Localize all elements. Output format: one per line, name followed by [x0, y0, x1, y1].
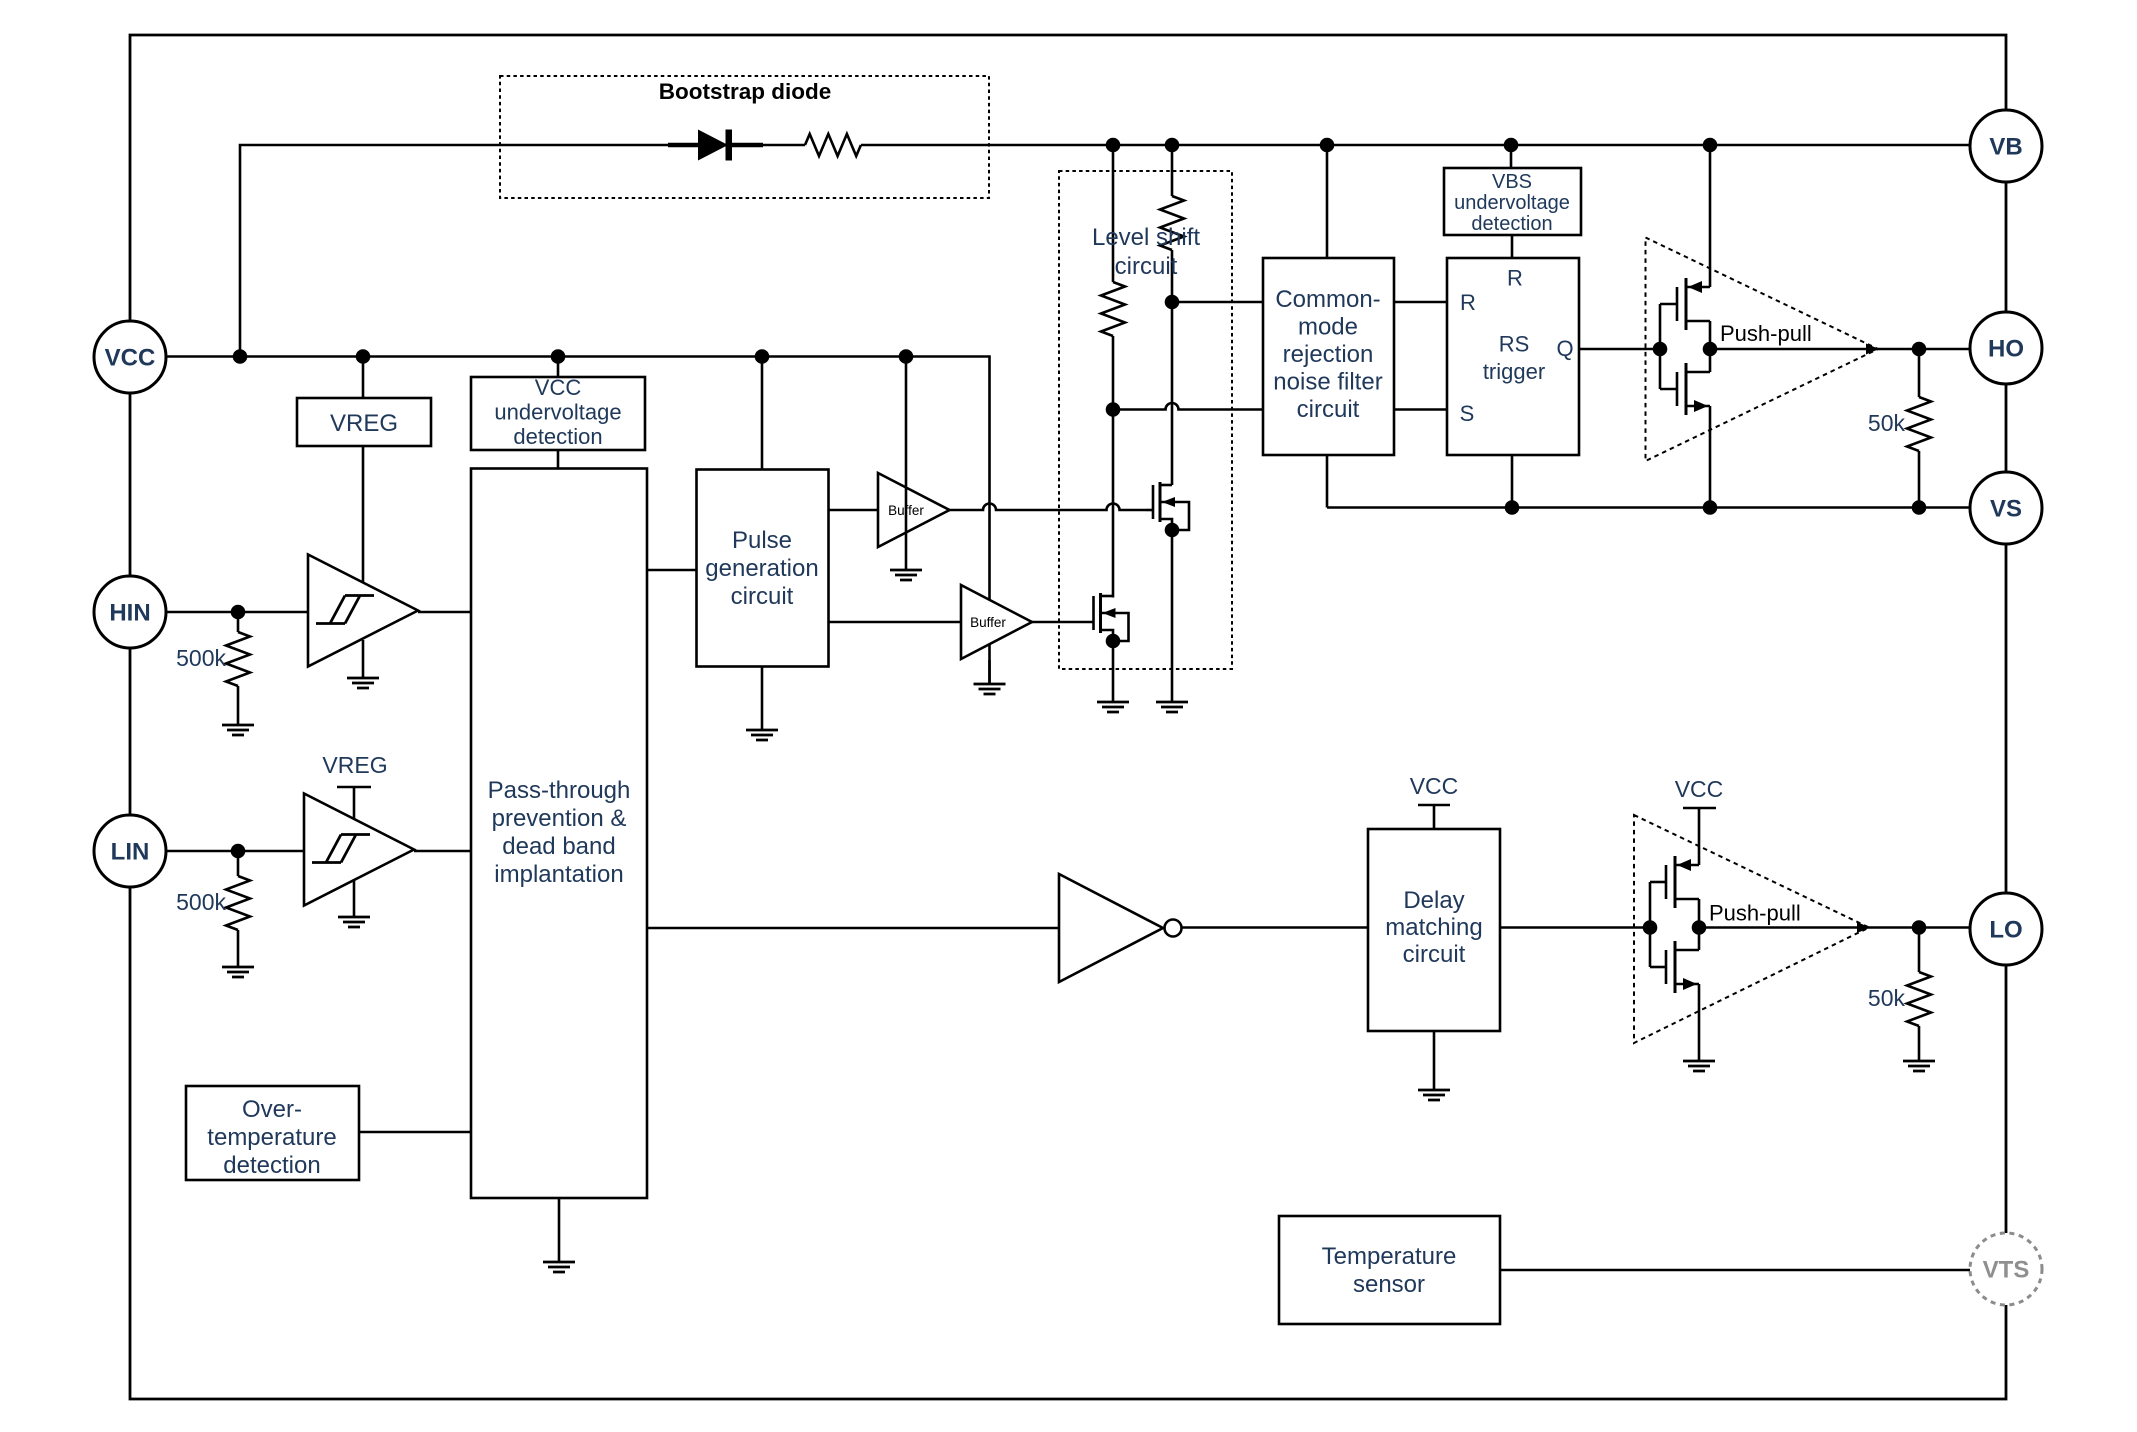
wire VCC to pulse generation — [761, 357, 764, 470]
svg-text:Pass-through: Pass-through — [488, 777, 631, 804]
wire LO NMOS source to ground — [1698, 984, 1701, 1061]
ground 50k LO — [1903, 1061, 1935, 1071]
wire buffer1 power/ground — [905, 357, 908, 571]
block Delay matching circuit — [1368, 829, 1500, 1031]
ground Q2 — [1097, 702, 1129, 712]
pin VCC — [94, 321, 166, 393]
wire VCC bar to delay box — [1433, 805, 1436, 829]
ground delay matching — [1418, 1090, 1450, 1100]
wire delay to LO push-pull — [1500, 926, 1650, 929]
wire Q1 gate from buffer1 — [1146, 509, 1153, 512]
svg-text:Temperature: Temperature — [1322, 1243, 1457, 1270]
svg-text:VTS: VTS — [1983, 1257, 2030, 1284]
node LIN junction — [231, 844, 246, 859]
resistor 500k LIN — [237, 851, 240, 876]
svg-text:undervoltage: undervoltage — [1454, 192, 1570, 214]
node HIN junction — [231, 605, 246, 620]
wire Q output — [1579, 348, 1660, 351]
svg-text:Buffer: Buffer — [970, 615, 1006, 630]
wire HIN input — [166, 611, 308, 614]
wire Q2 source to ground — [1112, 641, 1115, 702]
svg-text:Push-pull: Push-pull — [1709, 901, 1801, 926]
wire HO gate bus — [1659, 304, 1662, 389]
buffer U1 — [878, 473, 950, 547]
wire R line — [1172, 301, 1263, 304]
svg-text:circuit: circuit — [731, 583, 794, 610]
resistor level shift right — [1160, 196, 1184, 250]
pin VS — [1970, 472, 2042, 544]
svg-text:Level shift: Level shift — [1092, 224, 1200, 251]
wire pulse gen to buffer1 — [829, 509, 879, 512]
node VS rail junctions — [1505, 500, 1520, 515]
ground schmitt HIN — [347, 678, 379, 688]
ground Q1 — [1156, 702, 1188, 712]
svg-text:VREG: VREG — [322, 752, 387, 778]
wire over-temp to pass-through — [359, 1131, 471, 1134]
wire LO output — [1699, 926, 1970, 929]
svg-text:VREG: VREG — [330, 410, 398, 437]
svg-text:mode: mode — [1298, 314, 1358, 341]
ground buffer1 — [890, 570, 922, 580]
transistor Q1 level shift upper — [1159, 482, 1162, 522]
wire buffer2 output — [1032, 621, 1094, 624]
block Common-mode rejection noise filter circuit — [1263, 258, 1394, 455]
diode D1 — [668, 143, 698, 148]
ground buffer2 — [974, 684, 1006, 694]
wire LIN input — [166, 850, 304, 853]
block VBS undervoltage detection — [1444, 168, 1581, 235]
resistor 50k HO — [1918, 349, 1921, 397]
wire VREG to HIN schmitt — [362, 446, 365, 584]
inverter U3 — [1059, 874, 1163, 982]
node VB rail junctions — [1106, 138, 1121, 153]
wire pass-through ground stub — [558, 1198, 561, 1262]
wire pass-through to pulse generation — [647, 569, 697, 572]
wire common-mode to RS trigger S — [1394, 408, 1447, 411]
wire bootstrap to VB — [861, 144, 1970, 147]
pin LIN — [94, 815, 166, 887]
push-pull dashed triangle HO — [1646, 238, 1879, 462]
transistor Q3 HO PMOS — [1685, 278, 1688, 330]
wire common-mode to RS trigger R — [1394, 301, 1447, 304]
svg-text:S: S — [1460, 401, 1475, 426]
block RS trigger — [1447, 258, 1579, 455]
node VCC rail junctions — [233, 349, 248, 364]
buffer U2 — [961, 585, 1032, 659]
resistor bootstrap — [805, 134, 861, 156]
wire pass-through to inverter — [647, 927, 1059, 930]
svg-text:implantation: implantation — [494, 861, 623, 888]
ground LIN resistor — [222, 967, 254, 977]
block VCC undervoltage detection — [471, 377, 645, 450]
wire VB to HO push-pull supply — [1709, 145, 1712, 287]
svg-text:VBS: VBS — [1492, 171, 1532, 193]
pin VB — [1970, 110, 2042, 182]
svg-text:VCC: VCC — [1675, 776, 1724, 802]
svg-text:VB: VB — [1989, 134, 2022, 161]
svg-text:matching: matching — [1385, 914, 1482, 941]
svg-text:HO: HO — [1988, 336, 2024, 363]
svg-text:detection: detection — [513, 424, 602, 449]
svg-text:undervoltage: undervoltage — [494, 400, 621, 425]
svg-text:RS: RS — [1499, 332, 1530, 357]
svg-text:VS: VS — [1990, 496, 2022, 523]
wire common-mode to VS rail — [1326, 455, 1329, 508]
wire schmitt LIN output — [414, 850, 471, 853]
transistor Q4 HO NMOS — [1685, 363, 1688, 415]
wire Q1 source to ground — [1171, 530, 1174, 702]
wire LO drain bus — [1698, 899, 1701, 950]
svg-text:500k: 500k — [176, 645, 226, 671]
level shift dashed box — [1059, 171, 1232, 669]
node R junction — [1165, 295, 1180, 310]
svg-text:R: R — [1507, 266, 1523, 291]
ground schmitt LIN — [338, 917, 370, 927]
svg-text:detection: detection — [1471, 213, 1552, 235]
wire VB to common-mode box — [1326, 145, 1329, 258]
wire VREG bar to LIN schmitt — [353, 787, 356, 821]
wire VCC to bootstrap — [240, 145, 805, 357]
block Pass-through prevention and dead band implantation — [471, 469, 647, 1199]
svg-text:VCC: VCC — [105, 345, 156, 372]
wire level shift left branch — [1112, 145, 1115, 282]
svg-text:Push-pull: Push-pull — [1720, 321, 1812, 346]
svg-text:dead band: dead band — [502, 833, 615, 860]
wire schmitt HIN output — [418, 611, 471, 614]
svg-text:circuit: circuit — [1403, 941, 1466, 968]
block Pulse generation circuit — [697, 470, 829, 667]
svg-text:generation: generation — [705, 555, 818, 582]
wire buffer2 ground — [988, 660, 991, 684]
block Temperature sensor — [1279, 1216, 1500, 1324]
resistor 500k HIN — [237, 612, 240, 632]
wire VCC to VCC UV detection — [557, 357, 560, 378]
block Over-temperature detection — [186, 1086, 359, 1180]
svg-text:Over-: Over- — [242, 1096, 302, 1123]
wire buffer1 output with hops — [950, 504, 1147, 511]
schmitt trigger HIN — [308, 555, 418, 667]
node S junction — [1106, 402, 1121, 417]
wire VBS box to RS trigger — [1511, 235, 1514, 258]
ground HIN resistor — [222, 725, 254, 735]
pin HO — [1970, 312, 2042, 384]
svg-text:circuit: circuit — [1115, 253, 1178, 280]
wire VCC bar to LO PMOS — [1698, 808, 1701, 865]
pin HIN — [94, 576, 166, 648]
wire VCC to VREG — [362, 357, 365, 399]
pin VTS — [1970, 1233, 2042, 1305]
wire schmitt HIN ground stub — [362, 640, 365, 678]
svg-text:Q: Q — [1556, 336, 1573, 361]
wire HO drain bus — [1709, 321, 1712, 372]
pin LO — [1970, 893, 2042, 965]
block VREG — [297, 398, 431, 446]
wire S line with hop — [1113, 403, 1263, 409]
wire VB to VBS box — [1510, 145, 1513, 168]
svg-text:Pulse: Pulse — [732, 527, 792, 554]
svg-text:Common-: Common- — [1275, 286, 1380, 313]
svg-text:VCC: VCC — [1410, 773, 1459, 799]
ground pulse generation — [746, 730, 778, 740]
svg-text:LIN: LIN — [111, 839, 150, 866]
ground LO push-pull — [1683, 1061, 1715, 1071]
svg-text:sensor: sensor — [1353, 1271, 1425, 1298]
wire temperature sensor to VTS — [1500, 1269, 1970, 1272]
svg-text:HIN: HIN — [109, 600, 150, 627]
svg-text:prevention &: prevention & — [492, 805, 627, 832]
svg-text:50k: 50k — [1868, 410, 1906, 436]
svg-text:500k: 500k — [176, 889, 226, 915]
svg-text:temperature: temperature — [207, 1124, 336, 1151]
wire pulse gen to buffer2 — [829, 621, 962, 624]
wire LO gate bus — [1649, 882, 1652, 967]
push-pull dashed triangle LO — [1634, 815, 1869, 1043]
svg-text:50k: 50k — [1868, 985, 1906, 1011]
svg-text:Bootstrap diode: Bootstrap diode — [659, 79, 832, 104]
bootstrap diode dashed box — [500, 76, 989, 198]
wire delay ground stub — [1433, 1031, 1436, 1090]
wire schmitt LIN ground stub — [353, 879, 356, 917]
resistor level shift left — [1101, 282, 1125, 336]
svg-text:detection: detection — [223, 1152, 320, 1179]
wire RS trigger to VS rail — [1511, 455, 1514, 508]
wire VCC UV to pass-through — [557, 450, 560, 469]
wire HO NMOS source to VS — [1709, 406, 1712, 508]
transistor Q2 level shift lower — [1099, 593, 1102, 633]
svg-text:noise filter: noise filter — [1273, 369, 1382, 396]
wire VCC rail — [166, 357, 990, 685]
svg-text:circuit: circuit — [1297, 396, 1360, 423]
ground pass-through — [543, 1262, 575, 1272]
transistor Q6 LO NMOS — [1674, 941, 1677, 993]
svg-text:trigger: trigger — [1483, 359, 1545, 384]
svg-text:LO: LO — [1989, 917, 2022, 944]
svg-text:R: R — [1460, 290, 1476, 315]
svg-text:Delay: Delay — [1403, 887, 1464, 914]
resistor 50k LO — [1918, 928, 1921, 973]
svg-text:VCC: VCC — [535, 375, 582, 400]
wire HO output — [1710, 348, 1970, 351]
schmitt trigger LIN — [304, 794, 414, 906]
wire level shift right branch — [1171, 145, 1174, 196]
wire VS rail — [1327, 506, 1970, 509]
svg-text:rejection: rejection — [1283, 341, 1374, 368]
wire pulse generation ground stub — [761, 667, 764, 731]
transistor Q5 LO PMOS — [1674, 856, 1677, 908]
wire inverter to delay matching — [1182, 926, 1369, 929]
